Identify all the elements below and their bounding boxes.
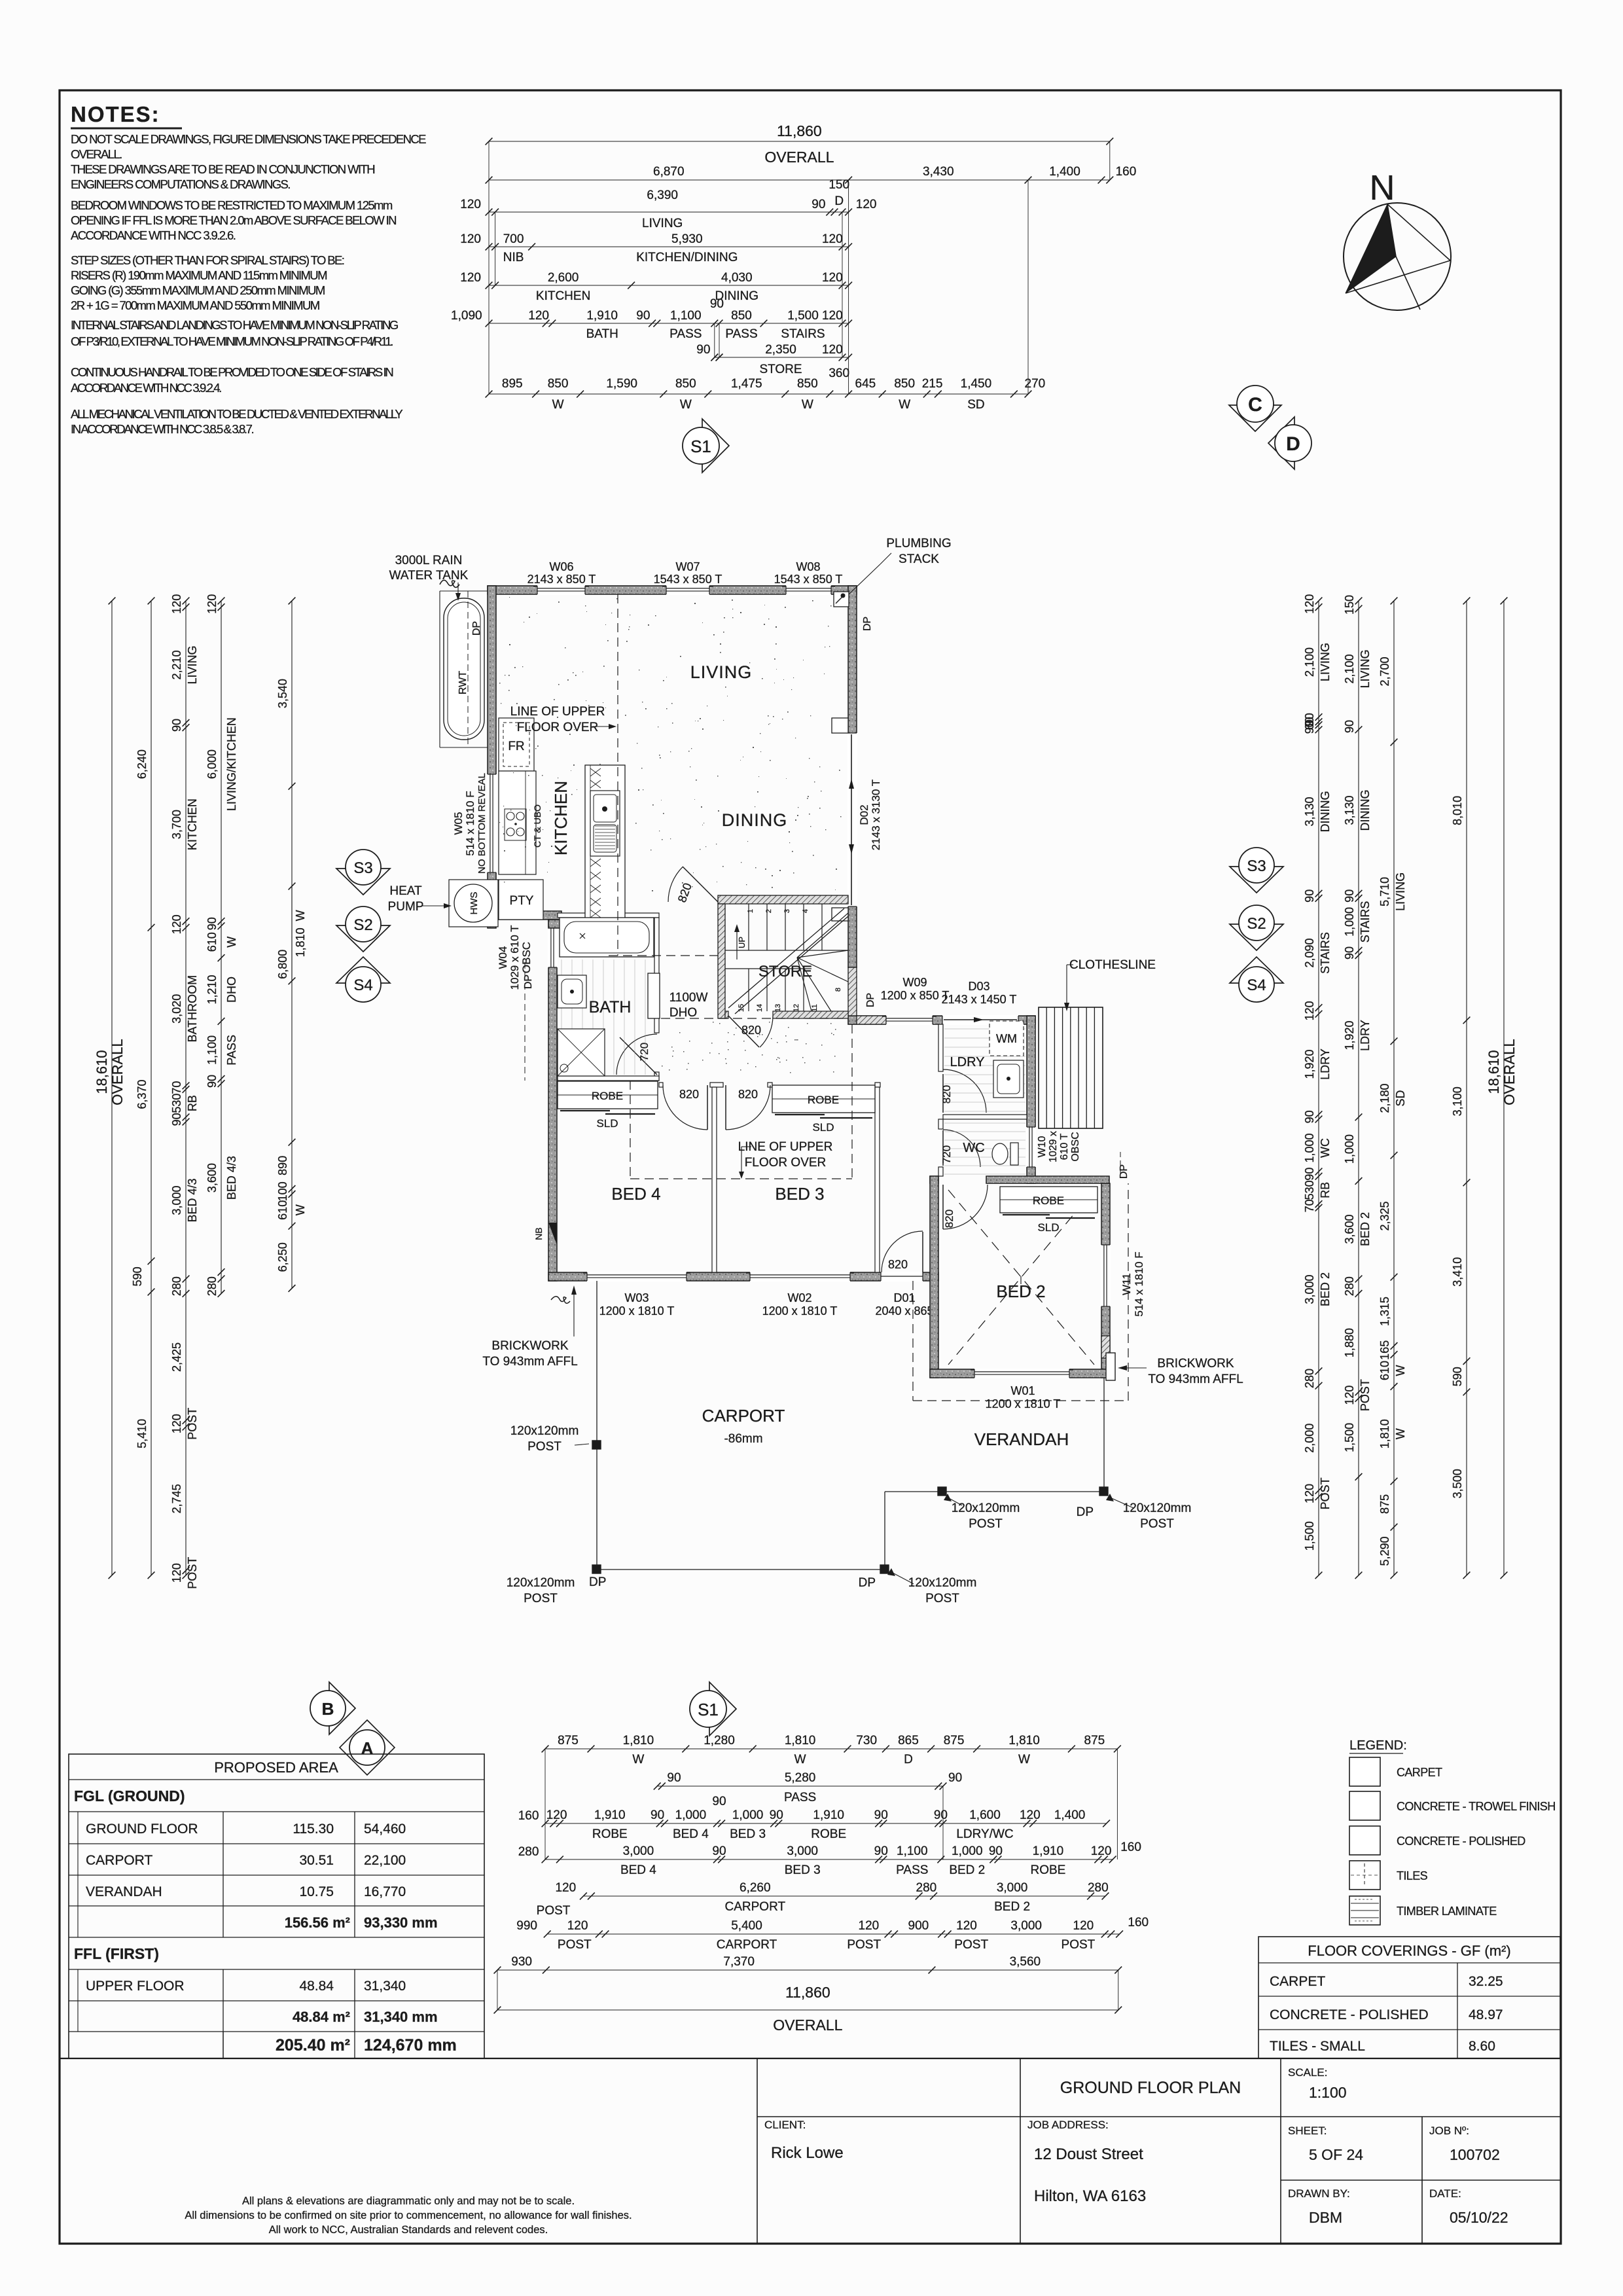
svg-text:156.56 m²: 156.56 m² [285, 1914, 350, 1931]
svg-text:INTERNAL STAIRS AND LANDINGS T: INTERNAL STAIRS AND LANDINGS TO HAVE MIN… [71, 318, 399, 332]
svg-text:All plans & elevations are dia: All plans & elevations are diagrammatic … [242, 2195, 575, 2207]
legend swatch timber laminate [1349, 1896, 1497, 1925]
right dim chain 3 [1378, 598, 1407, 1579]
svg-text:FLOOR OVER: FLOOR OVER [517, 721, 599, 734]
disclaimer text [185, 2195, 632, 2236]
left dim chain 2: 6,240/6,370/590/5,410 [131, 598, 154, 1579]
svg-text:BED 2: BED 2 [994, 1900, 1030, 1914]
svg-text:6,370: 6,370 [135, 1079, 149, 1109]
label W03 [599, 1291, 675, 1318]
kitchen bench west with cooktop [499, 771, 543, 874]
svg-text:GROUND FLOOR PLAN: GROUND FLOOR PLAN [1060, 2079, 1241, 2097]
exterior wall: west lower (bath/bed4) [548, 920, 557, 1281]
svg-text:54,460: 54,460 [364, 1821, 406, 1837]
svg-text:All dimensions to be confirmed: All dimensions to be confirmed on site p… [185, 2210, 632, 2221]
svg-text:165: 165 [1378, 1340, 1391, 1360]
right dim chain overall 18,610 [1486, 598, 1518, 1579]
svg-text:160: 160 [1120, 1840, 1141, 1854]
svg-text:850: 850 [797, 377, 818, 391]
interior wall kitchen/bath divider [558, 913, 659, 918]
svg-text:120: 120 [956, 1919, 977, 1933]
svg-text:S3: S3 [353, 859, 372, 877]
svg-text:POST: POST [186, 1557, 199, 1589]
svg-text:1,475: 1,475 [731, 377, 762, 391]
svg-text:SD: SD [1394, 1090, 1407, 1106]
svg-text:PASS: PASS [669, 327, 702, 341]
svg-text:W05: W05 [452, 812, 465, 835]
top dimension chain row 2: 6,870 / 3,430 / 1,400 / 160 [486, 165, 1137, 183]
toilet [992, 1143, 1018, 1165]
svg-text:LINE OF UPPER: LINE OF UPPER [510, 705, 605, 719]
svg-text:90: 90 [1343, 946, 1356, 960]
dashed upper floor over (bath/hall/store) [609, 956, 852, 1179]
svg-text:90: 90 [667, 1771, 681, 1785]
svg-text:CARPORT: CARPORT [86, 1853, 152, 1868]
svg-text:2,700: 2,700 [1378, 656, 1391, 686]
svg-text:W: W [1018, 1753, 1030, 1767]
section marker S1 bottom [690, 1682, 736, 1736]
svg-text:1:100: 1:100 [1309, 2084, 1347, 2101]
svg-text:DHO: DHO [669, 1006, 697, 1020]
svg-text:1100W: 1100W [669, 991, 708, 1005]
svg-text:C: C [1248, 394, 1262, 416]
svg-text:STORE: STORE [759, 363, 802, 376]
svg-text:730: 730 [856, 1734, 877, 1748]
section marker S4 left [336, 957, 390, 1002]
carport row [86, 1853, 406, 1868]
svg-text:1029 x: 1029 x [1048, 1131, 1059, 1162]
svg-text:120: 120 [1303, 1484, 1316, 1503]
svg-text:BATH: BATH [589, 998, 632, 1016]
svg-text:IN ACCORDANCE WITH NCC 3.8.5 &: IN ACCORDANCE WITH NCC 3.8.5 & 3.8.7. [71, 422, 253, 436]
heat pump label [388, 884, 452, 914]
svg-text:CT & UBO: CT & UBO [532, 804, 543, 848]
heat pump HWS [449, 880, 498, 927]
svg-text:-86mm: -86mm [724, 1432, 762, 1446]
svg-text:120: 120 [170, 1563, 183, 1583]
verandah label [974, 1429, 1069, 1449]
robe bed4 with sliding door [558, 1081, 658, 1130]
svg-text:VERANDAH: VERANDAH [974, 1429, 1069, 1449]
svg-text:2,350: 2,350 [765, 343, 796, 357]
proposed area header [214, 1759, 338, 1776]
window W02 [746, 1272, 854, 1282]
svg-text:1,810 W: 1,810 W [294, 910, 307, 957]
interior wall bath east [654, 918, 659, 1081]
svg-text:STAIRS: STAIRS [1359, 901, 1372, 943]
job address cell [1027, 2119, 1146, 2205]
svg-text:POST: POST [1140, 1517, 1174, 1531]
svg-text:POST: POST [186, 1408, 199, 1440]
svg-text:All work to NCC, Australian St: All work to NCC, Australian Standards an… [269, 2224, 548, 2236]
bed2 north wall [930, 1176, 1109, 1183]
verandah dashed boundary [913, 1183, 1128, 1401]
robe bed3 with sliding door [772, 1085, 875, 1134]
svg-text:820: 820 [888, 1258, 908, 1271]
svg-text:5,410: 5,410 [135, 1419, 149, 1448]
svg-text:890: 890 [276, 1156, 289, 1175]
svg-text:115.30: 115.30 [293, 1821, 334, 1837]
wall pier bump living east 1 [832, 718, 848, 733]
svg-text:W: W [794, 1753, 806, 1767]
label W06 [527, 560, 596, 586]
svg-text:90: 90 [710, 297, 724, 311]
svg-text:31,340: 31,340 [364, 1979, 406, 1994]
1100W DHO label [669, 991, 708, 1020]
svg-text:UPPER FLOOR: UPPER FLOOR [86, 1979, 185, 1994]
svg-text:120: 120 [460, 271, 481, 285]
svg-text:BED 4/3: BED 4/3 [225, 1156, 238, 1200]
svg-text:1,100: 1,100 [897, 1844, 928, 1858]
svg-text:2,000: 2,000 [1303, 1424, 1316, 1453]
svg-text:D: D [904, 1753, 913, 1767]
svg-text:1,910: 1,910 [586, 309, 618, 323]
svg-text:STEP SIZES (OTHER THAN FOR SPI: STEP SIZES (OTHER THAN FOR SPIRAL STAIRS… [71, 253, 344, 267]
svg-text:120: 120 [546, 1808, 567, 1822]
drawing title cell [1060, 2079, 1241, 2097]
svg-text:120x120mm: 120x120mm [510, 1424, 579, 1438]
ldry trough [993, 1060, 1024, 1098]
svg-text:6,800: 6,800 [276, 950, 289, 979]
svg-text:OVERALL: OVERALL [764, 149, 834, 166]
bottom dim row 5: carport/bed2 [537, 1881, 1109, 1918]
rwt label [389, 554, 469, 601]
section marker D [1268, 417, 1311, 469]
label W11 rotated [1120, 1251, 1145, 1316]
svg-text:GOING (G) 355mm MAXIMUM AND 25: GOING (G) 355mm MAXIMUM AND 250mm MINIMU… [71, 283, 325, 297]
carport boundary lines [597, 1281, 1104, 1570]
brickwork label left with arrow [482, 1285, 577, 1369]
svg-text:W01: W01 [1010, 1384, 1035, 1397]
svg-text:3,600: 3,600 [1343, 1214, 1356, 1244]
svg-text:1,920: 1,920 [1343, 1020, 1356, 1050]
svg-text:BED 2: BED 2 [1359, 1212, 1372, 1246]
svg-text:205.40 m²: 205.40 m² [276, 2036, 350, 2054]
label D01 [875, 1291, 933, 1318]
svg-text:FGL (GROUND): FGL (GROUND) [74, 1787, 185, 1804]
svg-text:W: W [552, 398, 564, 412]
svg-text:280: 280 [916, 1881, 937, 1895]
door ldry 820 with arc [940, 1069, 986, 1113]
svg-text:BED 3: BED 3 [730, 1827, 766, 1841]
bath label [589, 998, 632, 1016]
svg-text:SCALE:: SCALE: [1288, 2066, 1327, 2079]
svg-text:6,390: 6,390 [647, 188, 678, 202]
svg-text:1200 x 1810 T: 1200 x 1810 T [762, 1304, 838, 1318]
svg-text:STACK: STACK [899, 552, 939, 566]
svg-text:280: 280 [1088, 1881, 1109, 1895]
svg-text:15: 15 [738, 1004, 745, 1012]
svg-text:Hilton, WA 6163: Hilton, WA 6163 [1034, 2187, 1146, 2205]
svg-text:1,500: 1,500 [1343, 1423, 1356, 1452]
svg-text:Rick Lowe: Rick Lowe [771, 2144, 844, 2162]
svg-text:120: 120 [170, 914, 183, 934]
left dim chain 3: rooms [170, 594, 199, 1589]
svg-text:30.51: 30.51 [299, 1853, 334, 1868]
svg-text:1,210: 1,210 [205, 975, 219, 1004]
fgl ground row [74, 1787, 185, 1804]
svg-text:120: 120 [205, 594, 219, 614]
window W04 (bath west, obscure) [548, 927, 558, 967]
svg-text:N: N [1370, 168, 1395, 207]
wc tiles [944, 1123, 1026, 1174]
svg-text:W: W [802, 398, 813, 412]
svg-text:FLOOR OVER: FLOOR OVER [745, 1156, 827, 1170]
svg-text:11,860: 11,860 [777, 122, 822, 139]
svg-text:2,745: 2,745 [170, 1484, 183, 1513]
svg-text:NIB: NIB [503, 251, 524, 264]
floor coverings table [1258, 1937, 1560, 2058]
svg-text:DATE:: DATE: [1429, 2187, 1461, 2200]
ldry tiles [944, 1029, 1026, 1111]
svg-text:CARPET: CARPET [1270, 1974, 1325, 1989]
svg-text:90: 90 [712, 1795, 726, 1808]
window W03 [583, 1272, 690, 1282]
svg-text:NB: NB [533, 1227, 544, 1240]
svg-text:32.25: 32.25 [1469, 1974, 1503, 1989]
svg-text:1,920: 1,920 [1303, 1049, 1316, 1079]
svg-text:S4: S4 [1247, 977, 1266, 994]
svg-text:90: 90 [1303, 1168, 1316, 1181]
sheet cell [1288, 2125, 1363, 2163]
svg-text:5,280: 5,280 [785, 1771, 816, 1785]
svg-text:CONCRETE - POLISHED: CONCRETE - POLISHED [1270, 2007, 1429, 2022]
window W08 [782, 585, 835, 595]
svg-text:90: 90 [696, 343, 710, 357]
svg-text:280: 280 [170, 1276, 183, 1296]
svg-text:DP: DP [589, 1575, 606, 1589]
client cell [764, 2119, 844, 2162]
svg-text:BRICKWORK: BRICKWORK [1157, 1357, 1234, 1371]
left dim chain: 18,610 overall [94, 598, 126, 1579]
svg-text:820: 820 [679, 1088, 699, 1101]
svg-text:DINING: DINING [1319, 791, 1332, 833]
svg-text:BED 3: BED 3 [775, 1184, 824, 1204]
svg-text:820: 820 [738, 1088, 758, 1101]
svg-text:CARPORT: CARPORT [717, 1938, 777, 1952]
svg-text:3,410: 3,410 [1451, 1257, 1464, 1287]
svg-text:5,400: 5,400 [731, 1919, 762, 1933]
svg-text:8.60: 8.60 [1469, 2039, 1495, 2054]
svg-text:2143 x 850 T: 2143 x 850 T [527, 573, 596, 586]
svg-text:OVERALL: OVERALL [109, 1039, 126, 1105]
svg-text:WC: WC [963, 1141, 984, 1155]
svg-text:TIMBER LAMINATE: TIMBER LAMINATE [1397, 1905, 1497, 1918]
svg-text:120: 120 [859, 1919, 880, 1933]
svg-text:1,280: 1,280 [704, 1734, 735, 1748]
door hall to store 820 with arc [728, 1016, 773, 1047]
left dim chain 4 [205, 594, 238, 1297]
svg-text:1,000: 1,000 [1343, 907, 1356, 937]
svg-text:93,330 mm: 93,330 mm [364, 1914, 438, 1931]
svg-text:2,100: 2,100 [1303, 647, 1316, 677]
svg-text:DRAWN BY:: DRAWN BY: [1288, 2187, 1350, 2200]
NB marker bed4 west [533, 1223, 557, 1245]
svg-text:3,000: 3,000 [997, 1881, 1028, 1895]
svg-text:100702: 100702 [1450, 2146, 1500, 2163]
svg-text:6,250: 6,250 [276, 1242, 289, 1272]
svg-text:3,430: 3,430 [923, 165, 954, 179]
svg-text:WM: WM [996, 1032, 1017, 1045]
svg-text:1029 x 610 T: 1029 x 610 T [508, 925, 521, 990]
svg-text:LDRY: LDRY [1319, 1049, 1332, 1080]
svg-text:31,340 mm: 31,340 mm [364, 2009, 438, 2025]
svg-text:BED 2: BED 2 [1319, 1272, 1332, 1306]
svg-text:7,370: 7,370 [723, 1955, 755, 1969]
svg-text:3000L RAIN: 3000L RAIN [395, 554, 463, 567]
dashed dp line bath west [523, 962, 534, 1081]
svg-text:GROUND FLOOR: GROUND FLOOR [86, 1821, 198, 1837]
store label [758, 963, 812, 980]
svg-text:3,500: 3,500 [1451, 1469, 1464, 1498]
label W05 rotated [452, 773, 488, 874]
fridge recess FR [499, 718, 534, 771]
hatched corner segment near DP [857, 1016, 886, 1024]
svg-text:1,000: 1,000 [952, 1844, 983, 1858]
legend swatch carpet [1349, 1757, 1442, 1786]
svg-text:PUMP: PUMP [388, 900, 424, 914]
svg-text:120: 120 [822, 343, 843, 357]
upper floor row [86, 1979, 406, 1994]
svg-text:360: 360 [829, 367, 849, 380]
svg-text:WATER TANK: WATER TANK [389, 569, 469, 583]
svg-text:1,810: 1,810 [785, 1734, 816, 1748]
svg-text:D03: D03 [968, 980, 990, 993]
svg-text:820: 820 [940, 1085, 953, 1103]
svg-text:POST: POST [954, 1938, 988, 1952]
label W04 rotated [497, 925, 533, 990]
door wc 720 with arc [940, 1130, 980, 1167]
svg-text:CONCRETE - TROWEL FINISH: CONCRETE - TROWEL FINISH [1397, 1800, 1556, 1813]
svg-text:160: 160 [518, 1809, 539, 1823]
svg-text:CARPORT: CARPORT [702, 1406, 785, 1426]
post verandah left [938, 1487, 946, 1496]
svg-text:SLD: SLD [1037, 1221, 1059, 1234]
svg-text:BRICKWORK: BRICKWORK [491, 1339, 569, 1353]
svg-text:850: 850 [675, 377, 696, 391]
svg-text:1,810: 1,810 [1378, 1419, 1391, 1448]
post carport bottom-left [592, 1565, 601, 1573]
svg-text:OVERALL: OVERALL [1501, 1039, 1518, 1105]
stair treads upper flight [725, 904, 848, 950]
svg-text:18,610: 18,610 [1486, 1050, 1502, 1094]
label D02 rotated [858, 780, 882, 850]
label W01 [986, 1384, 1061, 1410]
svg-text:11,860: 11,860 [785, 1984, 830, 2001]
bed2 south wall [930, 1369, 1115, 1378]
svg-text:1,090: 1,090 [451, 309, 482, 323]
fgl total row [285, 1914, 438, 1931]
post verandah right [1099, 1487, 1108, 1496]
svg-text:DP: DP [1118, 1164, 1130, 1179]
svg-text:90: 90 [874, 1844, 888, 1858]
svg-text:LDRY/WC: LDRY/WC [956, 1827, 1013, 1841]
svg-text:NOTES:: NOTES: [71, 102, 160, 126]
svg-text:895: 895 [502, 377, 523, 391]
svg-text:ROBE: ROBE [811, 1827, 846, 1841]
svg-text:2,325: 2,325 [1378, 1201, 1391, 1230]
svg-text:POST: POST [925, 1592, 959, 1605]
svg-text:OVERALL.: OVERALL. [71, 147, 122, 161]
svg-text:W09: W09 [902, 976, 927, 989]
right dim chain inner [1303, 594, 1332, 1579]
ldry label [950, 1055, 985, 1069]
door bed4 820 with arc [663, 1085, 707, 1130]
svg-text:CONTINUOUS HANDRAIL TO BE PROV: CONTINUOUS HANDRAIL TO BE PROVIDED TO ON… [71, 365, 393, 379]
svg-text:280: 280 [1303, 1369, 1316, 1388]
date cell [1429, 2187, 1508, 2226]
legend swatch tiles [1349, 1861, 1428, 1890]
bed2 west wall [930, 1176, 938, 1378]
top dimension chain row 7: 90 / 2,350 STORE / 120 [696, 343, 852, 376]
exterior wall: south of pantry/HWS [488, 911, 562, 920]
robe bed2 with sliding door [1000, 1187, 1097, 1234]
svg-text:2,180: 2,180 [1378, 1083, 1391, 1113]
label W02 [762, 1291, 838, 1318]
door dining to hall 820 with arc [668, 867, 718, 904]
svg-text:LDRY: LDRY [950, 1055, 985, 1069]
svg-text:1,910: 1,910 [594, 1808, 626, 1822]
svg-text:90: 90 [205, 917, 219, 930]
svg-text:3,540: 3,540 [276, 679, 289, 708]
svg-text:150: 150 [829, 178, 849, 192]
svg-text:120x120mm: 120x120mm [908, 1576, 977, 1590]
verandah row [86, 1884, 406, 1899]
door D03 opening (sliding) [942, 1015, 1018, 1025]
svg-text:90: 90 [989, 1844, 1003, 1858]
concrete polished row [1270, 2007, 1503, 2022]
svg-text:CLIENT:: CLIENT: [764, 2119, 806, 2131]
svg-text:POST: POST [969, 1517, 1003, 1531]
door bed2 820 with arc [943, 1185, 988, 1229]
svg-text:6,870: 6,870 [653, 165, 685, 179]
svg-text:VERANDAH: VERANDAH [86, 1884, 162, 1899]
svg-text:SLD: SLD [596, 1117, 618, 1130]
svg-text:STAIRS: STAIRS [1319, 932, 1332, 974]
svg-text:ACCORDANCE WITH NCC 3.9.2.6.: ACCORDANCE WITH NCC 3.9.2.6. [71, 228, 236, 242]
svg-text:100: 100 [276, 1181, 289, 1201]
svg-text:1,400: 1,400 [1054, 1808, 1086, 1822]
proposed area table frame [69, 1754, 484, 2058]
interior wall ldry west [938, 1024, 943, 1071]
svg-text:3,130: 3,130 [1343, 795, 1356, 825]
svg-text:ACCORDANCE WITH NCC 3.9.2.4.: ACCORDANCE WITH NCC 3.9.2.4. [71, 381, 221, 395]
svg-text:120: 120 [567, 1919, 588, 1933]
section marker B [310, 1682, 355, 1734]
clothesline [1039, 1007, 1103, 1128]
svg-text:W: W [680, 398, 692, 412]
svg-text:W06: W06 [549, 560, 573, 573]
svg-text:STAIRS: STAIRS [781, 327, 825, 341]
plumbing stack label [849, 537, 952, 594]
svg-text:POST: POST [558, 1938, 592, 1952]
washing machine WM [990, 1021, 1024, 1056]
stair break lines [728, 908, 848, 1014]
svg-text:90: 90 [651, 1808, 664, 1822]
svg-text:THESE DRAWINGS ARE TO BE READ: THESE DRAWINGS ARE TO BE READ IN CONJUNC… [71, 162, 374, 176]
svg-text:BEDROOM WINDOWS TO BE RESTRICT: BEDROOM WINDOWS TO BE RESTRICTED TO MAXI… [71, 198, 393, 212]
svg-text:W: W [632, 1753, 644, 1767]
svg-text:3,000: 3,000 [787, 1844, 818, 1858]
svg-text:990: 990 [516, 1919, 537, 1933]
stair treads lower flight [725, 969, 811, 1011]
svg-text:2R + 1G = 700mm MAXIMUM AND 55: 2R + 1G = 700mm MAXIMUM AND 550mm MINIMU… [71, 298, 319, 312]
svg-text:TO 943mm AFFL: TO 943mm AFFL [1148, 1372, 1243, 1386]
svg-text:850: 850 [548, 377, 569, 391]
svg-text:W: W [294, 1204, 307, 1215]
label W10 rotated [1037, 1131, 1081, 1162]
svg-text:W04: W04 [497, 946, 509, 969]
